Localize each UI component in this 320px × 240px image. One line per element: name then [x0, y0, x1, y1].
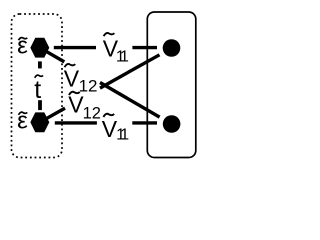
wire V12 diagonal bottom-hexagon to top-circle, main [100, 55, 160, 88]
label V12 bottom tilde [69, 92, 80, 95]
impurity cluster box (dotted) [12, 14, 63, 158]
wire V12 diagonal top-hexagon to bottom-circle, main [100, 83, 160, 118]
svg-text:ε: ε [17, 33, 28, 60]
impurity site hexagon top [30, 38, 49, 58]
label V11 bottom tilde [103, 114, 114, 117]
label V11 top tilde [104, 33, 115, 36]
bath site circle bottom [163, 115, 181, 133]
label epsilon top tilde [19, 38, 28, 41]
wire V11 bottom horizontal right segment [132, 121, 157, 124]
impurity site hexagon bottom [30, 112, 49, 132]
wire V11 top horizontal left segment [54, 46, 96, 49]
label t tilde [35, 75, 43, 78]
svg-text:12: 12 [83, 104, 101, 122]
hopping t dashed link, lower dash [38, 100, 42, 110]
bath box (solid) [147, 12, 196, 158]
label epsilon bottom tilde [19, 112, 28, 115]
svg-text:V: V [64, 65, 80, 91]
wire V12 diagonal top-hexagon to bottom-circle, stub [40, 48, 65, 62]
svg-text:t: t [34, 76, 41, 104]
wire V11 top horizontal right segment [132, 46, 157, 49]
label V12 top tilde [65, 64, 76, 67]
wire V12 diagonal bottom-hexagon to top-circle, stub [40, 108, 65, 122]
wire V11 bottom horizontal left segment [55, 121, 97, 124]
bath site circle top [163, 39, 181, 57]
hopping t dashed link, upper dash [38, 61, 42, 68]
